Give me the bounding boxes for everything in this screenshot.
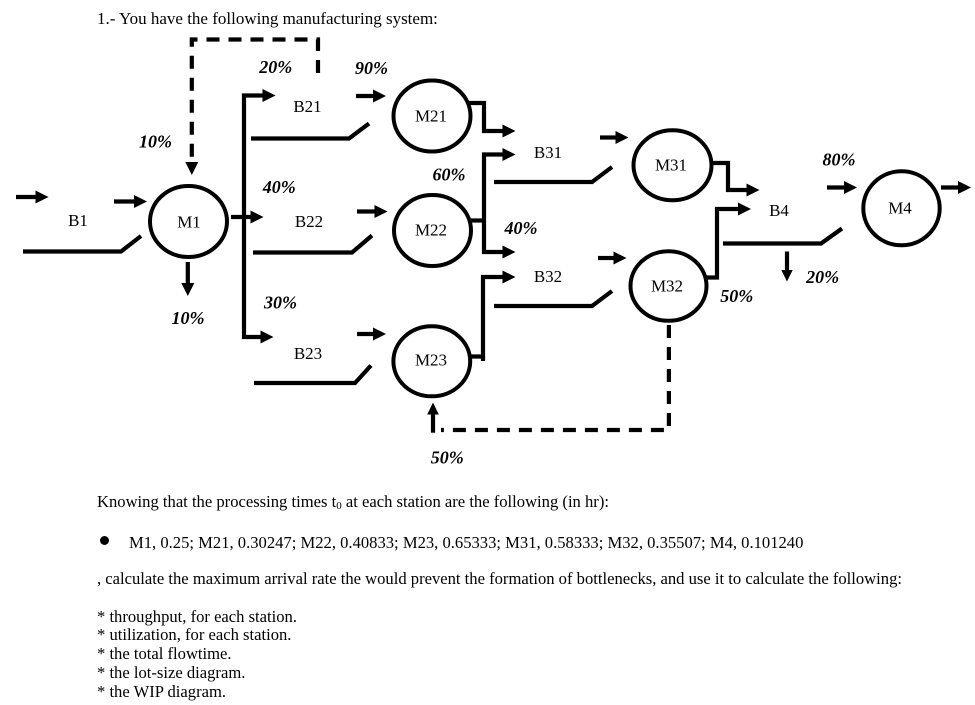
- svg-text:M4: M4: [888, 199, 912, 218]
- svg-text:B4: B4: [769, 201, 789, 220]
- svg-text:30%: 30%: [263, 293, 297, 313]
- svg-text:20%: 20%: [805, 267, 839, 287]
- svg-text:B22: B22: [295, 212, 323, 231]
- svg-text:20%: 20%: [258, 57, 292, 77]
- svg-text:M22: M22: [415, 221, 447, 240]
- svg-text:M32: M32: [651, 277, 683, 296]
- svg-text:90%: 90%: [355, 58, 388, 78]
- svg-text:M1: M1: [177, 213, 201, 232]
- svg-text:B21: B21: [293, 97, 321, 116]
- svg-text:B23: B23: [294, 344, 322, 363]
- svg-text:B1: B1: [68, 211, 88, 230]
- svg-text:40%: 40%: [504, 218, 538, 238]
- svg-text:80%: 80%: [823, 150, 856, 170]
- svg-text:B31: B31: [534, 143, 562, 162]
- svg-text:M31: M31: [655, 156, 687, 175]
- svg-text:M21: M21: [415, 107, 447, 126]
- svg-text:10%: 10%: [172, 308, 205, 328]
- svg-text:B32: B32: [534, 267, 562, 286]
- svg-text:60%: 60%: [433, 165, 466, 185]
- svg-text:10%: 10%: [139, 132, 172, 152]
- svg-text:40%: 40%: [262, 177, 296, 197]
- svg-text:50%: 50%: [431, 448, 464, 468]
- svg-text:M23: M23: [415, 351, 447, 370]
- svg-text:50%: 50%: [720, 286, 753, 306]
